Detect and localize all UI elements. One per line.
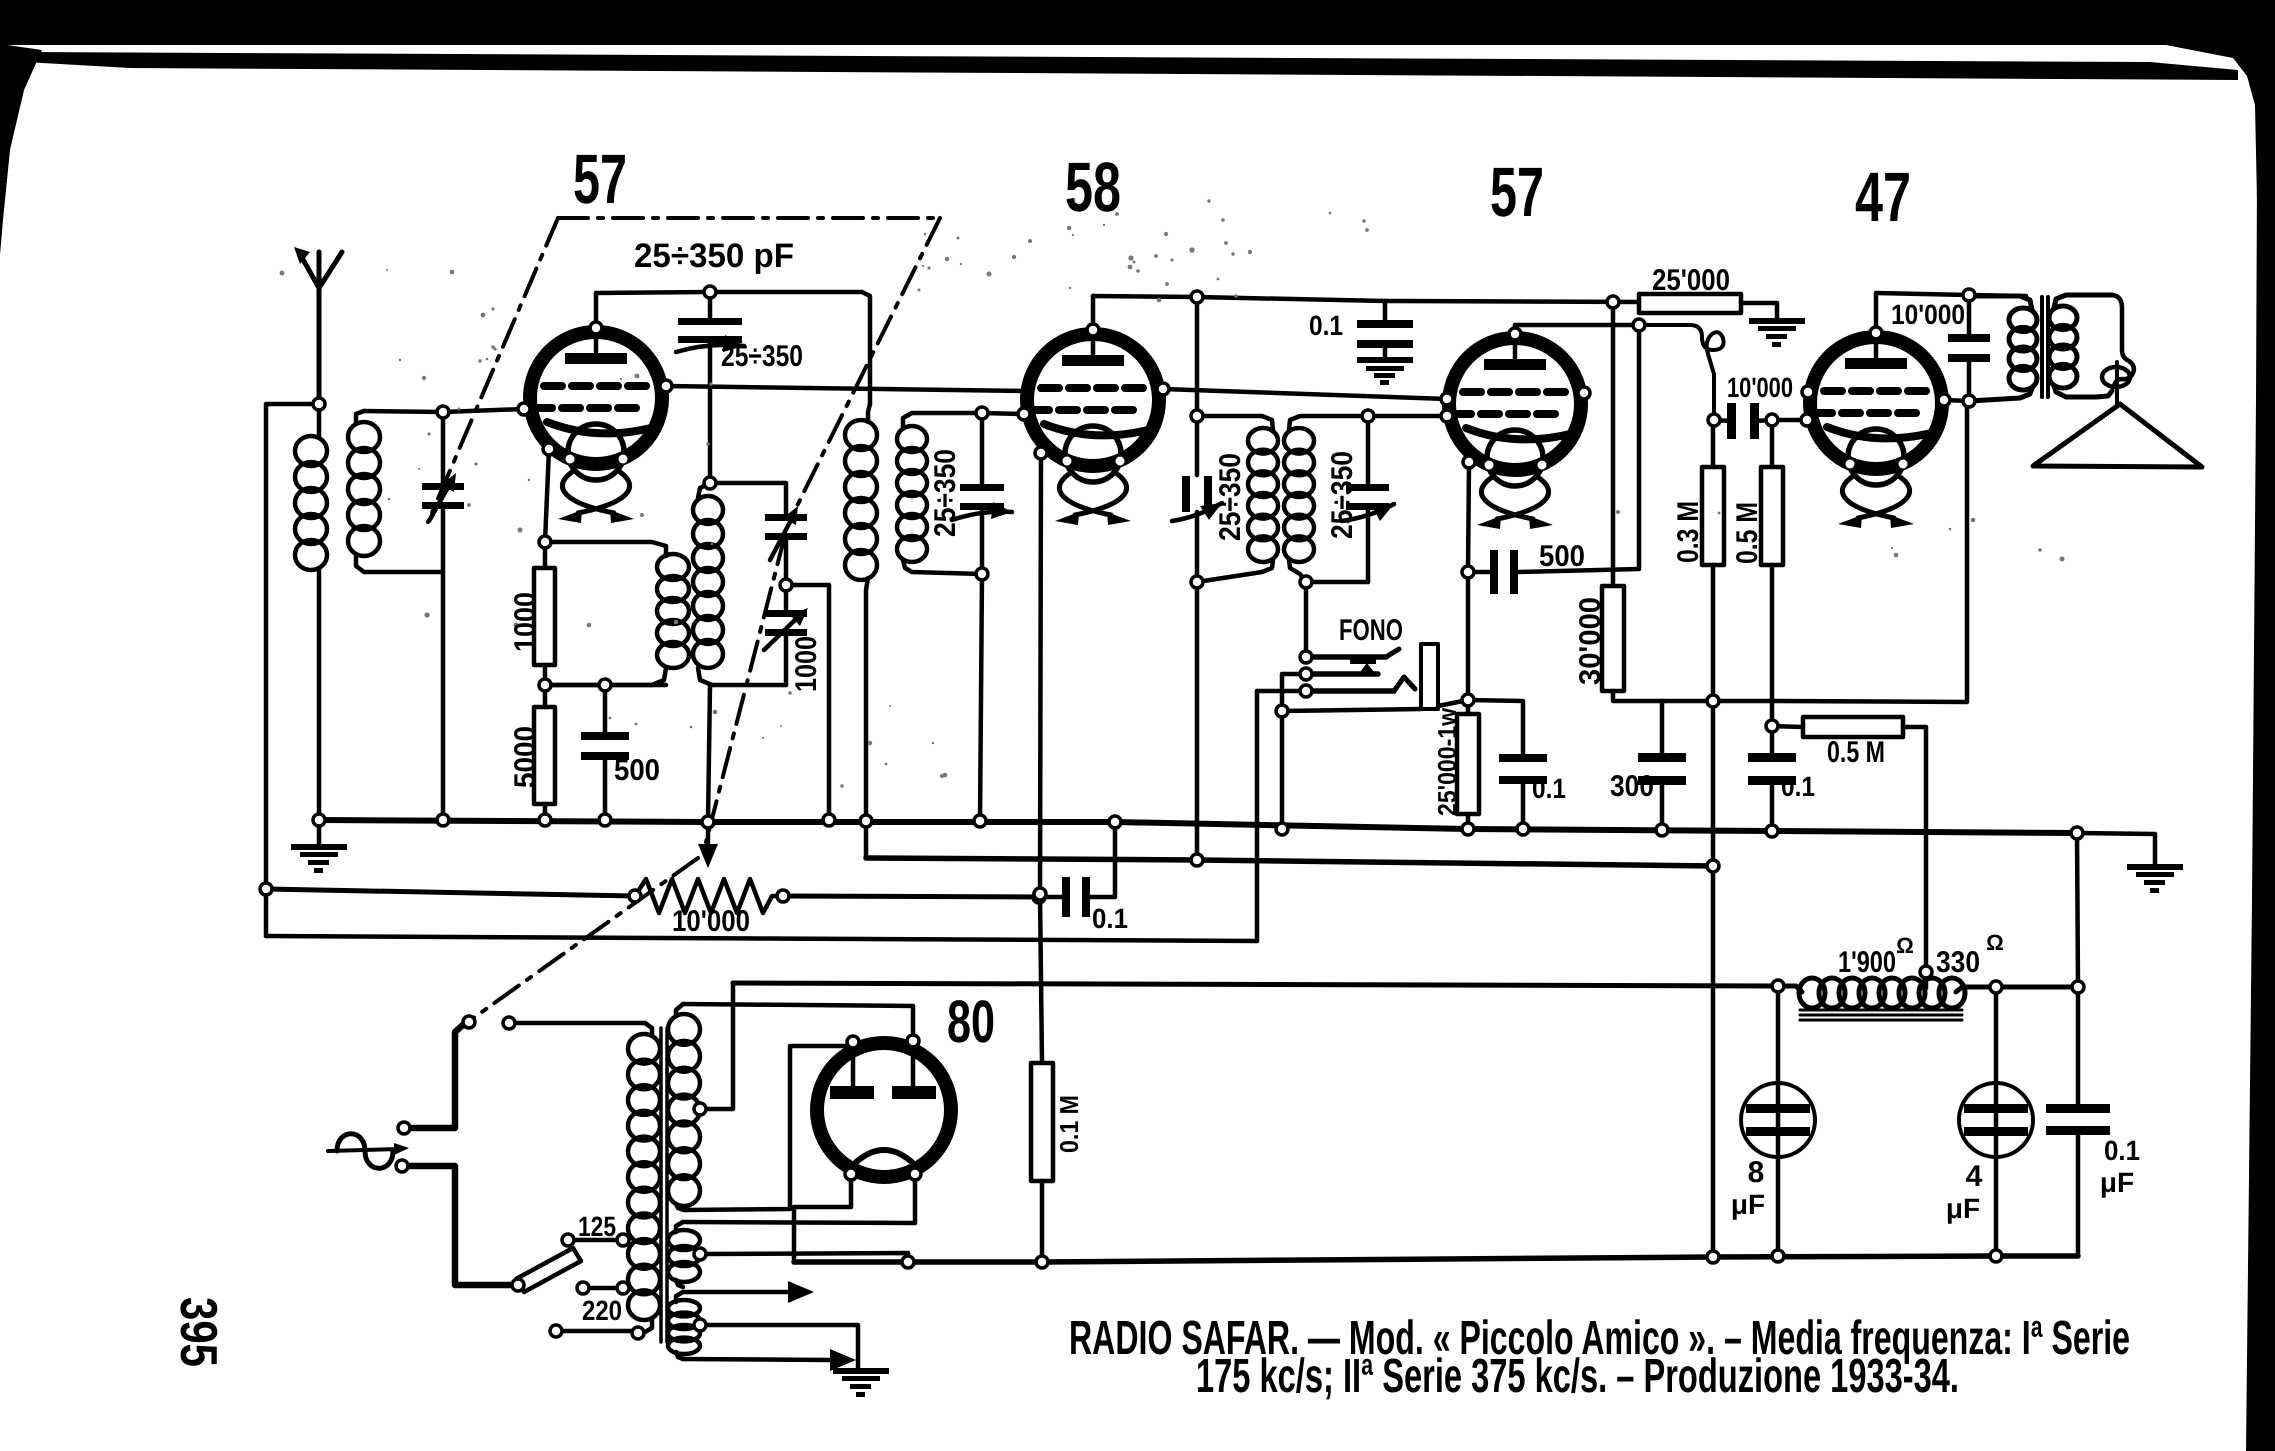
- node heater tap: [694, 1319, 706, 1331]
- node IF2 prim bottom: [1191, 576, 1203, 588]
- wire to trimmer: [708, 292, 713, 322]
- coil IF1 secondary: [903, 413, 982, 428]
- node 0.1M bottom: [1036, 1256, 1048, 1268]
- node 0.5M bottom: [1766, 720, 1778, 732]
- FONO jack body: [1421, 644, 1438, 709]
- svg-text:500: 500: [614, 754, 660, 787]
- coil L3 tickler: [545, 542, 666, 556]
- capacitor 0.1uF: [2046, 1104, 2110, 1135]
- node tap220 stub: [550, 1325, 562, 1337]
- node plate trimmer: [704, 286, 716, 298]
- node V3 cathode net: [1462, 694, 1474, 706]
- node V4 grid: [1801, 414, 1813, 426]
- node tickler bottom: [539, 679, 551, 691]
- svg-text:0.1 M: 0.1 M: [1054, 1095, 1084, 1153]
- node V5 glass right: [907, 1035, 919, 1047]
- trimmer capacitor IF2 secondary: [1346, 484, 1389, 510]
- node blade pivot: [512, 1279, 524, 1291]
- node railA x1282: [1276, 823, 1288, 835]
- wire 0.1uF branch: [2076, 987, 2081, 1107]
- wire 5V tap to bottom rail: [706, 1253, 908, 1262]
- node OT bottom: [1963, 395, 1975, 407]
- wire V1 cathode lead: [545, 449, 549, 542]
- wire IF1 to V2 grid: [982, 413, 1024, 414]
- wire 0.1 cap up to rail A: [1090, 822, 1115, 897]
- node switch c1: [463, 1016, 475, 1028]
- wire antenna node to left vertical: [266, 404, 319, 936]
- wire V1 plate to IF1: [596, 292, 862, 293]
- wire L2 top to V1 grid: [364, 409, 524, 412]
- wire switch to primary: [516, 1021, 645, 1026]
- svg-text:0.1: 0.1: [1309, 310, 1343, 341]
- coil L1 antenna primary: [317, 404, 322, 438]
- wire heater arrow 1: [683, 1290, 788, 1295]
- ground heater tap: [833, 1368, 889, 1397]
- node IF1 sec bottom: [976, 568, 988, 580]
- wire left filament down: [794, 1180, 851, 1262]
- node IF1 sec top: [976, 407, 988, 419]
- svg-text:57: 57: [573, 140, 627, 218]
- wire rail C riser to FONO: [1255, 691, 1260, 941]
- wire V1 plate lead: [594, 293, 599, 352]
- node V1 cathode: [543, 443, 555, 455]
- svg-text:30'000: 30'000: [1574, 597, 1607, 685]
- node V4 screen: [1802, 386, 1814, 398]
- node L4 top: [704, 477, 716, 489]
- wire bus to left ground: [317, 820, 322, 844]
- svg-text:47: 47: [1855, 158, 1911, 236]
- wire screen bus V1 to V2: [666, 386, 1024, 391]
- wire bottom return rail: [794, 1256, 2078, 1262]
- wire IF1 trimmer top: [980, 413, 985, 487]
- node bottom x1713: [1707, 1251, 1719, 1263]
- wire padder arrow: [764, 620, 795, 650]
- tube V4 47 output: [1810, 337, 1942, 485]
- wire 0.5M to field tap: [1903, 727, 1926, 973]
- node prim bottom: [632, 1327, 644, 1339]
- node IF2 sec bottom: [1300, 576, 1312, 588]
- svg-text:Ω: Ω: [1986, 930, 2004, 955]
- wire L2 bottom: [364, 570, 443, 575]
- svg-text:5000: 5000: [509, 726, 542, 788]
- wire grid return to OT bottom: [1713, 401, 1967, 702]
- node HV tap: [694, 1103, 706, 1115]
- wire tap 220: [556, 1329, 638, 1334]
- variable capacitor antenna tuning: [422, 483, 464, 509]
- wire padder branch to rail A: [786, 585, 829, 820]
- svg-text:μF: μF: [1946, 1193, 1980, 1224]
- wire to cap 500 coupling: [1468, 570, 1490, 575]
- wire sleeve to jack: [1282, 709, 1421, 711]
- wire L4 top to tuning cap: [710, 483, 786, 517]
- node 8uF bottom: [1772, 1250, 1784, 1262]
- node screen branch: [1607, 296, 1619, 308]
- node 10000 left: [1708, 414, 1720, 426]
- wire to cap 500: [603, 685, 608, 734]
- node filament right: [909, 1168, 921, 1180]
- node railB cap: [1033, 891, 1045, 903]
- svg-text:0.5 M: 0.5 M: [1731, 502, 1764, 564]
- wire HV center tap to B+: [706, 983, 733, 1109]
- node V3 glass top: [1509, 328, 1521, 340]
- svg-text:μF: μF: [1731, 1189, 1765, 1220]
- node OT top: [1963, 289, 1975, 301]
- node tickler top: [539, 536, 551, 548]
- node railA x1772: [1766, 825, 1778, 837]
- node railA x829: [823, 814, 835, 826]
- node ant cap top: [437, 406, 449, 418]
- wire x1713 to bottom rail: [1711, 866, 1716, 1257]
- node V1 screen: [660, 380, 672, 392]
- node V3 plate branch: [1633, 319, 1645, 331]
- svg-text:0.1: 0.1: [1781, 771, 1815, 802]
- wire screen feed: [1197, 297, 1639, 302]
- svg-text:58: 58: [1065, 148, 1121, 226]
- wire rail B left segment: [266, 889, 635, 896]
- FONO contact 3: [1312, 688, 1394, 694]
- wire IF2 to V3 grid: [1368, 414, 1447, 419]
- node railA x1115: [1109, 816, 1121, 828]
- wire cap500 to plate net: [1518, 325, 1639, 572]
- node railA x605: [599, 814, 611, 826]
- node switch c2: [503, 1017, 515, 1029]
- node cap500 top: [599, 679, 611, 691]
- wire screen rail B2: [866, 858, 1713, 866]
- resistor 1000 grid: [534, 568, 555, 665]
- cathode heater V3: [1481, 476, 1548, 519]
- coil T HV secondary: [676, 1004, 683, 1016]
- node FONO c1: [1300, 651, 1312, 663]
- wire V4 plate top: [1876, 293, 2026, 296]
- wire 0.3M top: [1711, 420, 1716, 467]
- node prim tap125: [617, 1234, 629, 1246]
- node V4 glass top: [1870, 327, 1882, 339]
- svg-text:Ω: Ω: [1896, 933, 1914, 958]
- svg-text:25÷350 pF: 25÷350 pF: [634, 237, 794, 275]
- svg-text:220: 220: [582, 1295, 622, 1326]
- svg-text:300: 300: [1610, 770, 1654, 803]
- wire IF2 primary bottom down to B2: [1195, 582, 1200, 860]
- node cap500L: [1462, 566, 1474, 578]
- coil IF2 primary: [1197, 416, 1273, 430]
- wire IF1 secondary bottom to rail A: [980, 574, 982, 821]
- wire V4 plate lead: [1874, 293, 1879, 357]
- resistor 25000-1w: [1457, 714, 1479, 814]
- svg-text:1000: 1000: [790, 636, 823, 692]
- wire HV bottom to left plate: [684, 1046, 853, 1210]
- node 4uF bottom: [1990, 1250, 2002, 1262]
- node osc cap mid: [780, 579, 792, 591]
- wire V2 cathode long vertical: [1040, 453, 1042, 1063]
- svg-text:0.3 M: 0.3 M: [1672, 501, 1705, 563]
- wire IF2 sec trimmer top: [1366, 416, 1371, 487]
- svg-text:1'900: 1'900: [1838, 946, 1896, 979]
- capacitor 0.1 screen2 bypass: [1748, 753, 1796, 785]
- wire V2 plate lead: [1091, 296, 1096, 354]
- node prim tapmid: [617, 1282, 629, 1294]
- resistor 0.1M bleeder: [1031, 1063, 1053, 1181]
- switch blade selector: [516, 1248, 581, 1292]
- scan noise speckles: [280, 198, 2065, 788]
- trimmer capacitor 25-350 osc: [678, 318, 742, 343]
- wire contact3 to rail C: [1257, 689, 1306, 694]
- wire to 0.1 bypass: [1383, 301, 1388, 323]
- tube V2 58 IF amplifier: [1027, 334, 1159, 482]
- svg-text:395: 395: [169, 1297, 227, 1367]
- node railA x1662: [1656, 824, 1668, 836]
- node V5 glass left: [847, 1036, 859, 1048]
- node antenna: [313, 398, 325, 410]
- wire HV top to right plate: [683, 1004, 913, 1086]
- node filament left: [845, 1168, 857, 1180]
- trimmer capacitor IF1: [960, 484, 1004, 510]
- node 5V tap: [694, 1248, 706, 1260]
- wire field coil tap: [1924, 972, 1929, 988]
- node 30000 bottom: [1707, 695, 1719, 707]
- wire L4 bottom to wiper: [708, 685, 710, 822]
- svg-text:330: 330: [1936, 946, 1980, 979]
- coil L2 antenna secondary: [356, 411, 364, 424]
- wire rail A down to field coil right: [2077, 833, 2078, 987]
- wire V3 plate lead: [1513, 325, 1518, 358]
- svg-text:0.5 M: 0.5 M: [1827, 736, 1885, 769]
- node 58 plate corner: [1191, 291, 1203, 303]
- wire jack to cathode: [1438, 700, 1468, 706]
- scan top black band: [0, 0, 2275, 255]
- coil IF2 secondary: [1289, 416, 1368, 430]
- node V4 edge: [1938, 394, 1950, 406]
- capacitor 10000 coupling: [1727, 403, 1759, 439]
- wire V3 cathode chain: [1468, 462, 1469, 700]
- svg-text:500: 500: [1539, 540, 1585, 573]
- cathode heater V2: [1059, 472, 1126, 515]
- wire to 0.1 under 0.5M: [1770, 726, 1775, 757]
- svg-text:25÷350: 25÷350: [1326, 451, 1359, 539]
- wire screen node down to 30000: [1611, 302, 1616, 586]
- node V2 screen: [1157, 383, 1169, 395]
- wire tap 125: [568, 1238, 623, 1243]
- svg-text:μF: μF: [2100, 1167, 2134, 1198]
- svg-text:57: 57: [1490, 153, 1544, 231]
- node V2 cathode: [1035, 447, 1047, 459]
- capacitor 0.1 rail B: [1062, 877, 1090, 917]
- node V2 glass top: [1087, 324, 1099, 336]
- wire 8uF branch: [1776, 986, 1781, 1256]
- wire 25000 to ground: [1741, 303, 1777, 318]
- node cord top: [398, 1122, 410, 1134]
- capacitor 500 coupling: [1490, 550, 1518, 594]
- ground screen bypass: [1357, 357, 1413, 385]
- svg-text:0.1: 0.1: [1532, 773, 1566, 804]
- cathode heater V1: [562, 470, 629, 513]
- node IF2 sec top: [1362, 410, 1374, 422]
- svg-text:10'000: 10'000: [1891, 299, 1965, 330]
- mechanical gang linkage dash-dot: [428, 218, 940, 1019]
- wire heater arrow 2: [683, 1359, 830, 1360]
- wire contact2 to sleeve node: [1282, 674, 1306, 711]
- variable capacitor 1000 padder: [765, 610, 807, 636]
- cathode heater V4: [1842, 475, 1909, 518]
- speaker voice coil: [2102, 367, 2130, 387]
- capacitor 8uF electrolytic: [1741, 1083, 1815, 1157]
- plug AC source symbol: [337, 1134, 393, 1169]
- node railA x1523: [1517, 823, 1529, 835]
- svg-text:FONO: FONO: [1339, 614, 1403, 647]
- transformer core: [659, 1028, 663, 1342]
- node 10000 right: [1766, 414, 1778, 426]
- resistor 5000 cathode: [534, 707, 555, 804]
- FONO contact 2: [1312, 671, 1378, 677]
- wire V3 plate wire: [1515, 323, 1639, 328]
- wire 0.5M top: [1770, 420, 1775, 467]
- variable capacitor 25-350 osc tuning: [765, 514, 807, 540]
- node V3 grid: [1441, 410, 1453, 422]
- field coil core lines: [1800, 1010, 1962, 1020]
- wire AC cord upper: [404, 1024, 464, 1128]
- svg-text:25'000-1w: 25'000-1w: [1432, 707, 1462, 816]
- wire to 0.5M horizontal: [1772, 726, 1803, 727]
- wire rail B right segment: [783, 896, 1039, 897]
- variable capacitor IF2 primary: [1182, 476, 1212, 512]
- wire to cap 300: [1660, 701, 1665, 757]
- svg-text:25÷350: 25÷350: [721, 340, 803, 373]
- tube V5 80 rectifier: [817, 1006, 951, 1177]
- node field far right: [2072, 981, 2084, 993]
- svg-text:8: 8: [1748, 1156, 1765, 1189]
- node 5Vtap rail: [902, 1256, 914, 1268]
- svg-text:25'000: 25'000: [1652, 264, 1730, 297]
- coil OT primary: [1970, 296, 2032, 310]
- svg-text:4: 4: [1966, 1160, 1983, 1193]
- coil T primary: [645, 1023, 652, 1036]
- node pot right: [777, 890, 789, 902]
- wire 5V top to filament: [683, 1180, 915, 1223]
- capacitor 500: [581, 732, 629, 760]
- wire screen bus V2 to V3: [1163, 389, 1447, 399]
- potentiometer 10000 volume: [635, 879, 783, 913]
- node V3 screen in: [1441, 393, 1453, 405]
- resistor 0.3M: [1702, 467, 1724, 565]
- resistor 30000: [1602, 586, 1624, 691]
- ground 25000: [1749, 318, 1805, 347]
- node field left: [1772, 980, 1784, 992]
- capacitor 300: [1638, 753, 1686, 785]
- wire cathode net: [545, 683, 666, 688]
- node railB left: [260, 883, 272, 895]
- tube V3 57 second detector: [1449, 338, 1581, 486]
- node field right: [1990, 981, 2002, 993]
- wire sleeve down to rail A: [1280, 711, 1285, 829]
- svg-text:25÷350: 25÷350: [1214, 453, 1247, 541]
- node tap125 stub: [562, 1234, 574, 1246]
- node railA end: [2071, 827, 2083, 839]
- wire 4uF branch: [1994, 987, 1999, 1256]
- coil field 1900+330: [1778, 986, 1802, 992]
- svg-text:25÷350: 25÷350: [929, 449, 962, 537]
- svg-text:175 kc/s; IIª Serie 375 k: 175 kc/s; IIª Serie 375 kc/s. – Produzio…: [1196, 1350, 1959, 1403]
- node cord bottom: [396, 1160, 408, 1172]
- node FONO sleeve: [1276, 705, 1288, 717]
- node railA x708: [702, 816, 714, 828]
- node tapmid stub: [577, 1282, 589, 1294]
- wire osc cap arrow: [770, 522, 790, 560]
- wire plate pigtail: [1639, 325, 1724, 420]
- tube V1 57 first detector: [530, 332, 662, 480]
- coil T 5V winding: [676, 1222, 683, 1232]
- wire to 0.1 cathode bypass: [1468, 700, 1523, 757]
- svg-text:80: 80: [947, 988, 995, 1055]
- node field tap: [1920, 966, 1932, 978]
- wire main bus rail A: [320, 820, 2077, 833]
- coil IF1 primary: [862, 292, 870, 404]
- wire to plate bypass: [1967, 295, 1972, 338]
- node railA x866: [860, 815, 872, 827]
- svg-text:0.1: 0.1: [1092, 903, 1128, 934]
- wire V2 plate top: [1093, 296, 1197, 297]
- node railB2 x1713: [1707, 860, 1719, 872]
- svg-text:10'000: 10'000: [1727, 372, 1793, 403]
- node railA x319: [313, 814, 325, 826]
- wire B+ rail B3: [733, 983, 1778, 986]
- core OT: [2040, 297, 2044, 397]
- node railB2 x1197: [1191, 854, 1203, 866]
- wire to ant tuning cap: [441, 412, 446, 487]
- svg-text:10'000: 10'000: [672, 905, 750, 938]
- capacitor 10000 plate bypass: [1948, 334, 1990, 362]
- node railB x1040: [1034, 888, 1046, 900]
- coil L4 oscillator tank: [698, 483, 710, 498]
- wire pot wiper arrow: [706, 824, 711, 844]
- wire ant cap arrow: [429, 489, 447, 521]
- wire AVC rail C: [266, 936, 1257, 941]
- resistor 0.5M vertical: [1761, 467, 1783, 565]
- node railA x980: [974, 815, 986, 827]
- FONO contact 1: [1312, 654, 1386, 660]
- wire 30000 bottom: [1613, 691, 1713, 701]
- node FONO c2: [1300, 668, 1312, 680]
- wire to 0.1 cap rail B: [1039, 895, 1062, 900]
- speaker cone: [2033, 404, 2202, 467]
- svg-text:1000: 1000: [509, 592, 542, 652]
- node V3 screen out: [1578, 387, 1590, 399]
- svg-text:0.1: 0.1: [2104, 1135, 2140, 1166]
- wire AC cord lower: [402, 1166, 513, 1285]
- node V2 grid: [1018, 408, 1030, 420]
- node FONO c3: [1300, 685, 1312, 697]
- capacitor 4uF electrolytic: [1959, 1083, 2033, 1157]
- node railA x1468: [1462, 823, 1474, 835]
- node V3 cathode: [1463, 456, 1475, 468]
- wire IF2 prim arrow: [1172, 503, 1222, 521]
- wire tap mid: [583, 1286, 623, 1291]
- coil OT secondary: [2054, 295, 2112, 308]
- coil T heater winding: [676, 1292, 683, 1302]
- wire IF2 prim cap top: [1195, 416, 1200, 475]
- node railA x443: [437, 814, 449, 826]
- capacitor 0.1 screen bypass: [1357, 320, 1413, 348]
- node railA x545: [539, 814, 551, 826]
- wire trimmer arrow: [676, 345, 744, 352]
- resistor 25000 screen feed: [1639, 294, 1741, 313]
- node IF2 prim top: [1191, 410, 1203, 422]
- node pot left: [629, 890, 641, 902]
- wire IF1 trimmer arrow: [952, 512, 1012, 520]
- ground right: [2127, 864, 2183, 893]
- resistor 0.5M horizontal: [1803, 717, 1903, 737]
- wire node to tube edge: [1944, 400, 1969, 401]
- antenna: [300, 252, 342, 404]
- wire rail A stub to right ground: [2077, 833, 2155, 864]
